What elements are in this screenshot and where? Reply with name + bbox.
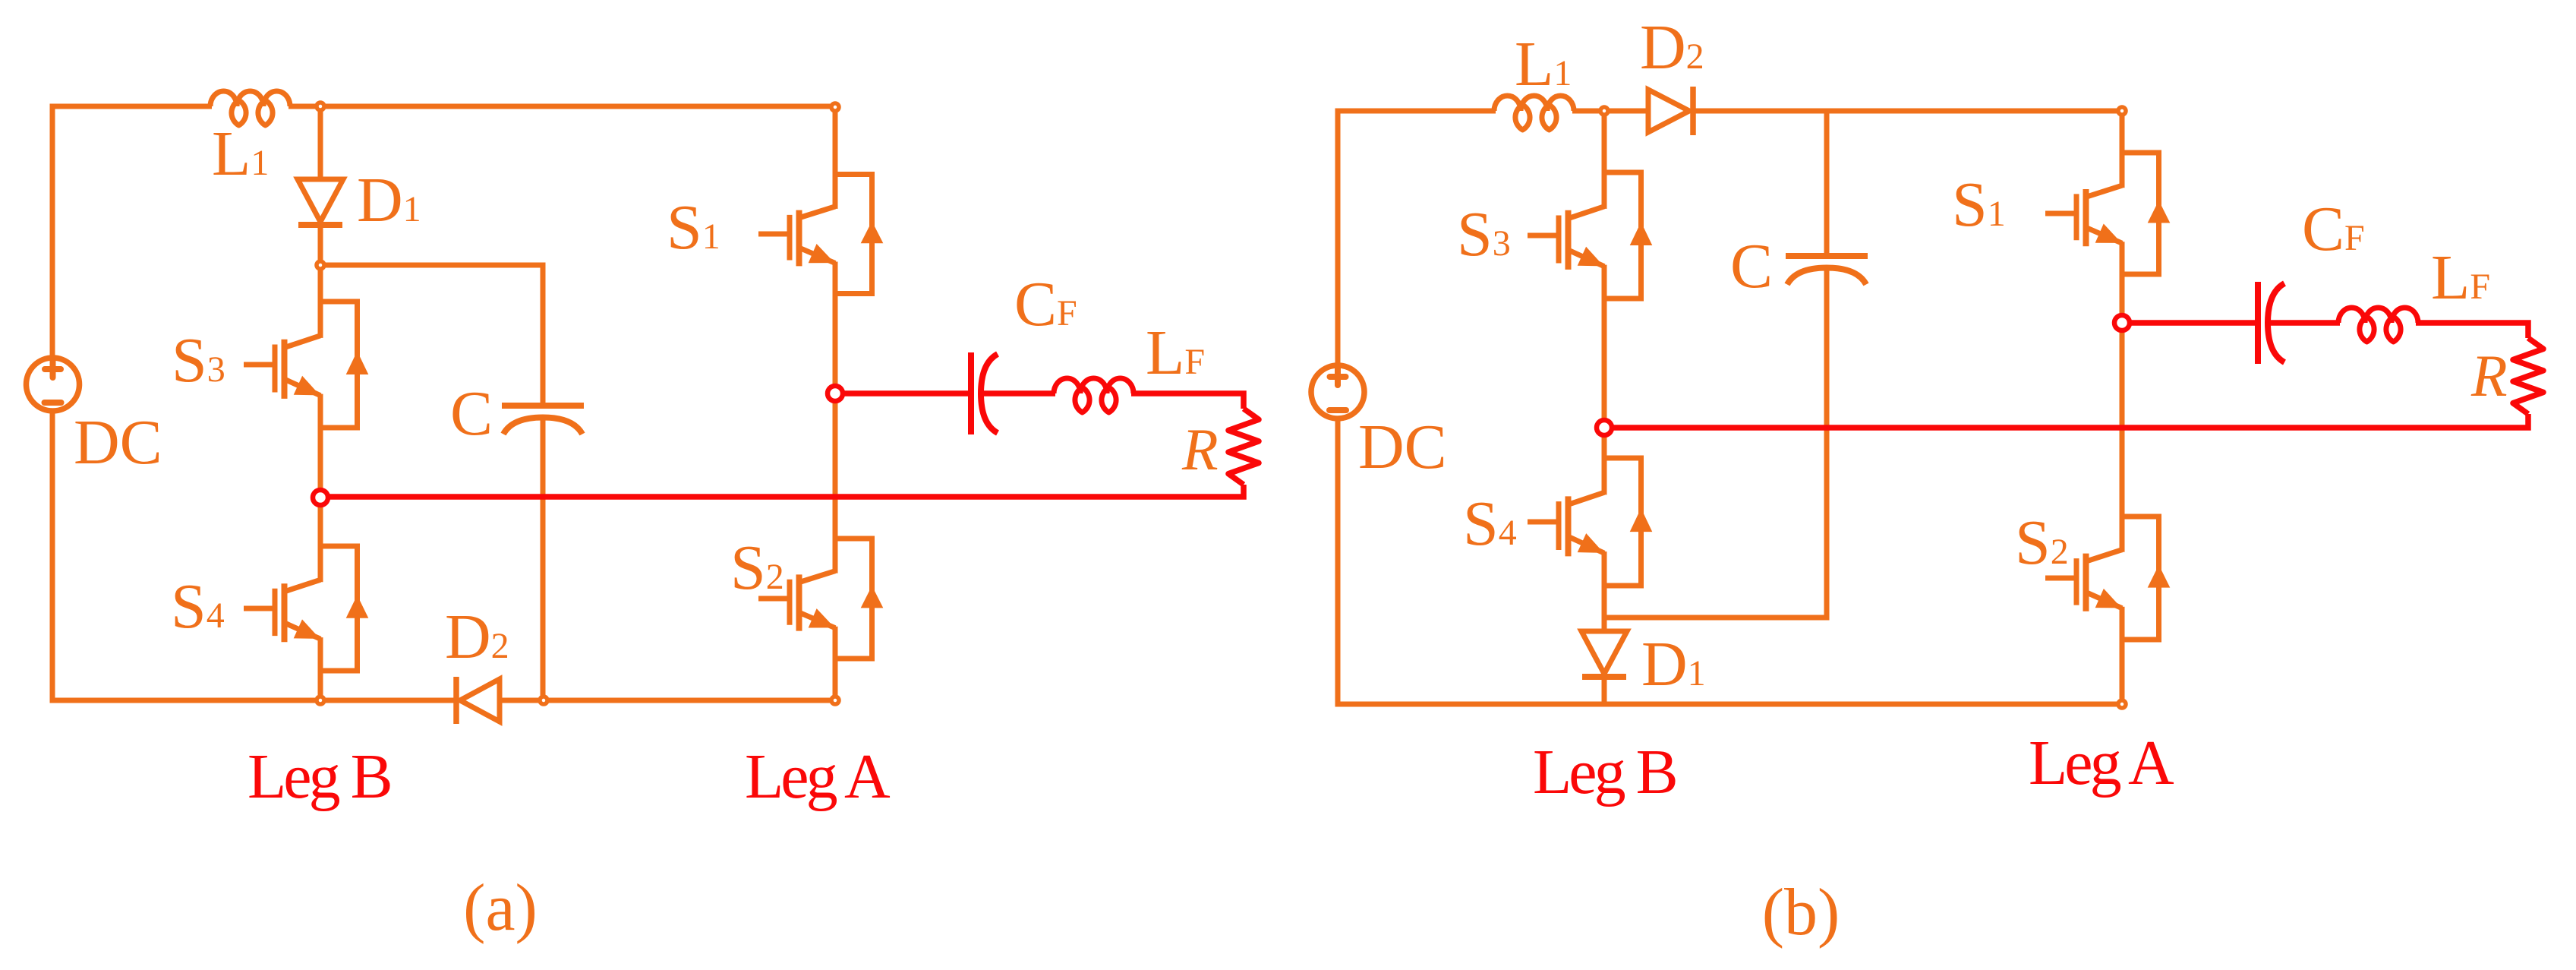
wire: D1 anode lead (a) xyxy=(318,109,323,181)
wire: output node to filter capacitor CF (b) xyxy=(2130,320,2258,326)
node: leg B output node (red) (b) xyxy=(1597,420,1612,435)
caption (a) xyxy=(463,871,538,945)
wire: R bottom corner return to leg B node (b) xyxy=(1607,414,2528,428)
label Leg A (a) xyxy=(745,741,891,812)
label LF (b) xyxy=(2431,242,2490,313)
inductor L1 (a) xyxy=(210,91,290,125)
wire: C lower lead down and left to leg B (b) xyxy=(1604,269,1827,618)
svg-text:L1: L1 xyxy=(1515,29,1572,100)
wire: DC positive rail top-left corner (b) xyxy=(1338,111,1496,366)
svg-text:(a): (a) xyxy=(463,871,538,945)
node: boost node after L1 (b) xyxy=(1600,107,1608,115)
inductor L1 (b) xyxy=(1494,96,1574,130)
label D2 (b) xyxy=(1640,12,1704,83)
label LF (a) xyxy=(1146,318,1205,388)
diode D2 (a) xyxy=(456,677,500,724)
transistor S1 (a) xyxy=(758,109,883,391)
label R (b) xyxy=(2470,343,2508,409)
diode D1 (a) xyxy=(298,179,343,225)
svg-text:DC: DC xyxy=(74,407,162,478)
svg-text:CF: CF xyxy=(1014,269,1077,340)
dc source DC (a) xyxy=(27,358,80,411)
label D1 (a) xyxy=(357,165,421,235)
svg-text:DC: DC xyxy=(1358,412,1447,482)
wire: D1 cathode to bottom bus (b) xyxy=(1602,675,1607,704)
node: leg B upper node (a) xyxy=(317,261,324,269)
node: bottom of leg A (b) xyxy=(2118,700,2126,708)
svg-text:D2: D2 xyxy=(1640,12,1704,83)
resistor R (a) xyxy=(1228,409,1259,485)
label S2 (a) xyxy=(730,532,784,603)
svg-text:L1: L1 xyxy=(212,118,269,189)
node: top of leg A (a) xyxy=(831,103,839,111)
label S2 (b) xyxy=(2015,507,2069,578)
node: S4 emitter on bottom bus (a) xyxy=(317,697,324,704)
label L1 (b) xyxy=(1515,29,1572,100)
svg-text:S2: S2 xyxy=(730,532,784,603)
diode D2 (b) xyxy=(1648,87,1693,135)
label Leg B (b) xyxy=(1533,737,1676,807)
svg-text:Leg A: Leg A xyxy=(2029,728,2174,798)
label S3 (b) xyxy=(1457,199,1511,270)
wire: CF to LF (b) xyxy=(2268,320,2340,326)
wire: CF to LF (a) xyxy=(981,390,1055,397)
caption (b) xyxy=(1762,876,1840,949)
node: top of leg A (b) xyxy=(2118,107,2126,115)
label CF (b) xyxy=(2302,194,2365,264)
label Leg B (a) xyxy=(248,741,390,812)
capacitor CF (a) xyxy=(971,352,998,434)
label S3 (a) xyxy=(172,325,225,396)
label DC (a) xyxy=(74,407,162,478)
svg-text:C: C xyxy=(450,378,493,449)
label S1 (b) xyxy=(1952,169,2006,240)
label R (a) xyxy=(1181,416,1219,482)
wire: LF to load R (b) xyxy=(2416,323,2528,338)
svg-text:S1: S1 xyxy=(667,192,720,263)
svg-text:S2: S2 xyxy=(2015,507,2069,578)
diode D1 (b) xyxy=(1581,631,1627,677)
svg-text:S3: S3 xyxy=(1457,199,1511,270)
wire: top bus from L1 to node (a) xyxy=(288,104,320,109)
node: C branch on bottom bus (a) xyxy=(540,697,547,704)
wire: leg B node to capacitor C branch (a) xyxy=(320,265,543,408)
transistor S4 (b) xyxy=(1528,430,1652,633)
capacitor C (b) xyxy=(1786,256,1868,285)
svg-text:C: C xyxy=(1730,231,1773,302)
svg-text:LF: LF xyxy=(2431,242,2490,313)
label S4 (b) xyxy=(1463,488,1517,559)
svg-text:(b): (b) xyxy=(1762,876,1840,949)
capacitor C (a) xyxy=(502,406,584,434)
svg-text:Leg B: Leg B xyxy=(248,741,390,812)
svg-text:R: R xyxy=(2470,343,2508,409)
label CF (a) xyxy=(1014,269,1077,340)
svg-text:D1: D1 xyxy=(357,165,421,235)
wire: D2 anode to C-branch node (a) xyxy=(500,698,544,703)
wire: node to D2 anode (b) xyxy=(1604,109,1648,114)
svg-text:Leg A: Leg A xyxy=(745,741,891,812)
wire: output node to filter capacitor CF (a) xyxy=(843,390,971,397)
label DC (b) xyxy=(1358,412,1447,482)
wire: bottom bus to leg A (a) xyxy=(544,698,835,703)
svg-text:D1: D1 xyxy=(1641,629,1706,700)
inductor LF (a) xyxy=(1054,378,1134,412)
label Leg A (b) xyxy=(2029,728,2174,798)
label C (b) xyxy=(1730,231,1773,302)
wire: D1 cathode to leg B node (a) xyxy=(318,223,323,265)
node: leg A output node (red) (a) xyxy=(828,386,843,401)
wire: DC negative rail bottom-left corner (b) xyxy=(1338,418,2122,704)
label C (a) xyxy=(450,378,493,449)
svg-text:CF: CF xyxy=(2302,194,2365,264)
wire: top bus to leg A (a) xyxy=(320,104,835,109)
transistor S3 (b) xyxy=(1528,113,1652,425)
svg-text:S4: S4 xyxy=(1463,488,1517,559)
dc source DC (b) xyxy=(1311,365,1364,419)
svg-text:Leg B: Leg B xyxy=(1533,737,1676,807)
svg-text:LF: LF xyxy=(1146,318,1205,388)
capacitor CF (b) xyxy=(2258,282,2284,364)
wire: R bottom corner (a) xyxy=(323,485,1244,497)
wire: top bus to capacitor C branch (b) xyxy=(1824,111,1830,258)
wire: L1 to boost node (b) xyxy=(1572,109,1604,114)
wire: DC positive rail top-left corner (a) xyxy=(52,106,212,359)
wire: DC negative rail bottom-left corner (a) xyxy=(52,410,455,700)
transistor S4 (a) xyxy=(244,500,368,700)
node: leg B output node (red) (a) xyxy=(313,490,328,505)
svg-text:R: R xyxy=(1181,416,1219,482)
node: leg A output node (red) (b) xyxy=(2114,315,2130,330)
wire: LF to load R (a) xyxy=(1131,393,1244,409)
node: boost node after L1 (a) xyxy=(317,103,324,110)
transistor S1 (b) xyxy=(2045,113,2170,321)
wire: D2 cathode along top bus to leg A (b) xyxy=(1693,109,2122,114)
svg-text:S1: S1 xyxy=(1952,169,2006,240)
svg-text:D2: D2 xyxy=(445,602,509,672)
label D2 (a) xyxy=(445,602,509,672)
resistor R (b) xyxy=(2513,338,2543,414)
inductor LF (b) xyxy=(2338,308,2418,342)
transistor S2 (b) xyxy=(2045,325,2170,702)
label S1 (a) xyxy=(667,192,720,263)
label D1 (b) xyxy=(1641,629,1706,700)
transistor S2 (a) xyxy=(758,396,883,698)
svg-text:S4: S4 xyxy=(171,571,225,642)
label S4 (a) xyxy=(171,571,225,642)
label L1 (a) xyxy=(212,118,269,189)
wire: C lower lead down to bottom bus (a) xyxy=(541,419,546,700)
transistor S3 (a) xyxy=(244,267,368,495)
node: bottom of leg A (a) xyxy=(831,697,839,704)
svg-text:S3: S3 xyxy=(172,325,225,396)
